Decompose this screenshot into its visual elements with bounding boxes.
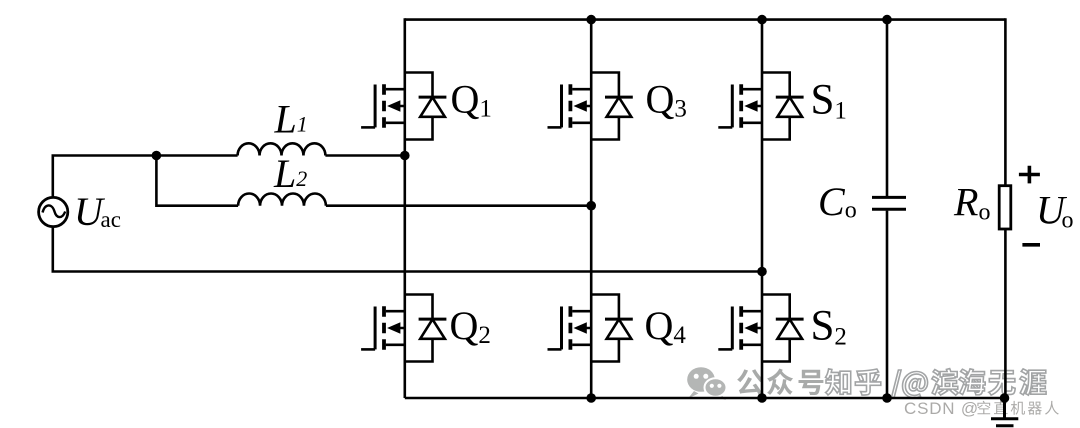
watermark text 人 [1045,401,1059,415]
watermark text 海 [959,369,985,395]
svg-text:Uac: Uac [74,189,121,234]
node bottom rail leg3 junction dot [757,393,767,403]
wire leg 3 vertical (S1/S2 branch) [761,18,764,398]
watermark text 器 [1028,402,1042,415]
node top rail leg2 junction dot [586,15,596,25]
node leg1 midpoint junction dot [400,151,410,161]
wire bottom rail [405,397,1006,400]
watermark text 公 [737,369,763,395]
svg-text:Ro: Ro [953,179,990,225]
watermark text 涯 [1020,369,1046,395]
watermark text 公众号 (solid gray) [737,369,823,396]
wire node A drop to L2 left lead [156,156,238,206]
watermark text 知乎/@滨海无涯 (hollow outline) [826,369,1047,398]
wire AC hot: source top to node A and L1 left lead [53,156,238,198]
watermark text @ [903,372,928,398]
resistor Ro body [999,186,1011,229]
svg-text:Q4: Q4 [645,303,687,349]
wire top rail [405,18,1006,21]
node bottom rail ground junction dot [1000,393,1010,403]
AC source Uac circle [39,197,68,226]
watermark text 众 [767,369,793,396]
output plus sign [1019,166,1040,184]
svg-text:Q1: Q1 [451,77,492,123]
capacitor Co plates [872,197,906,209]
ground [991,398,1018,426]
wire leg 1 vertical (Q1/Q2 branch) [403,18,406,398]
node leg3 midpoint junction dot [757,267,767,277]
node bottom rail leg2 junction dot [586,393,596,403]
svg-text:L1: L1 [274,97,308,142]
watermark text 空 [977,401,990,414]
svg-text:CSDN @: CSDN @ [904,399,979,418]
svg-text:Co: Co [818,179,857,224]
watermark text 乎 [855,369,881,395]
AC source sine wave [43,205,66,217]
watermark text 知 [826,369,851,395]
capacitor Co branch wires [886,18,889,398]
svg-text:Q2: Q2 [450,303,491,349]
svg-text:L2: L2 [273,151,307,196]
resistor Ro branch wires [1004,18,1007,398]
node top rail Co junction dot [882,15,892,25]
watermark text 无 [989,371,1015,396]
wire L1 right lead to leg 1 [325,154,404,157]
transistor Q1 [361,73,446,140]
watermark text 机 [1011,401,1025,415]
node bottom rail Co junction dot [882,393,892,403]
wire AC neutral: source bottom to S leg midpoint [53,226,762,272]
svg-text:Q3: Q3 [646,77,687,123]
watermark text 号 [799,370,824,395]
transistor S1 [718,73,803,140]
svg-text:Uo: Uo [1036,188,1074,234]
watermark wechat icon [687,367,726,400]
inductor L2 [238,193,326,205]
watermark text / [891,370,901,398]
wire L2 right lead to leg 2 [326,204,591,207]
svg-text:S2: S2 [811,303,847,351]
node A junction dot [152,151,162,161]
node top rail leg3 junction dot [757,15,767,25]
transistor S2 [718,295,803,362]
transistor Q4 [548,295,633,362]
inductor L1 [238,143,326,155]
svg-text:S1: S1 [811,77,847,125]
watermark text 直 [994,401,1008,414]
node leg2 midpoint junction dot [586,201,596,211]
transistor Q2 [361,295,446,362]
wire leg 2 vertical (Q3/Q4 branch) [590,18,593,398]
watermark text 滨 [932,369,958,396]
output minus sign [1022,243,1040,247]
transistor Q3 [548,73,633,140]
